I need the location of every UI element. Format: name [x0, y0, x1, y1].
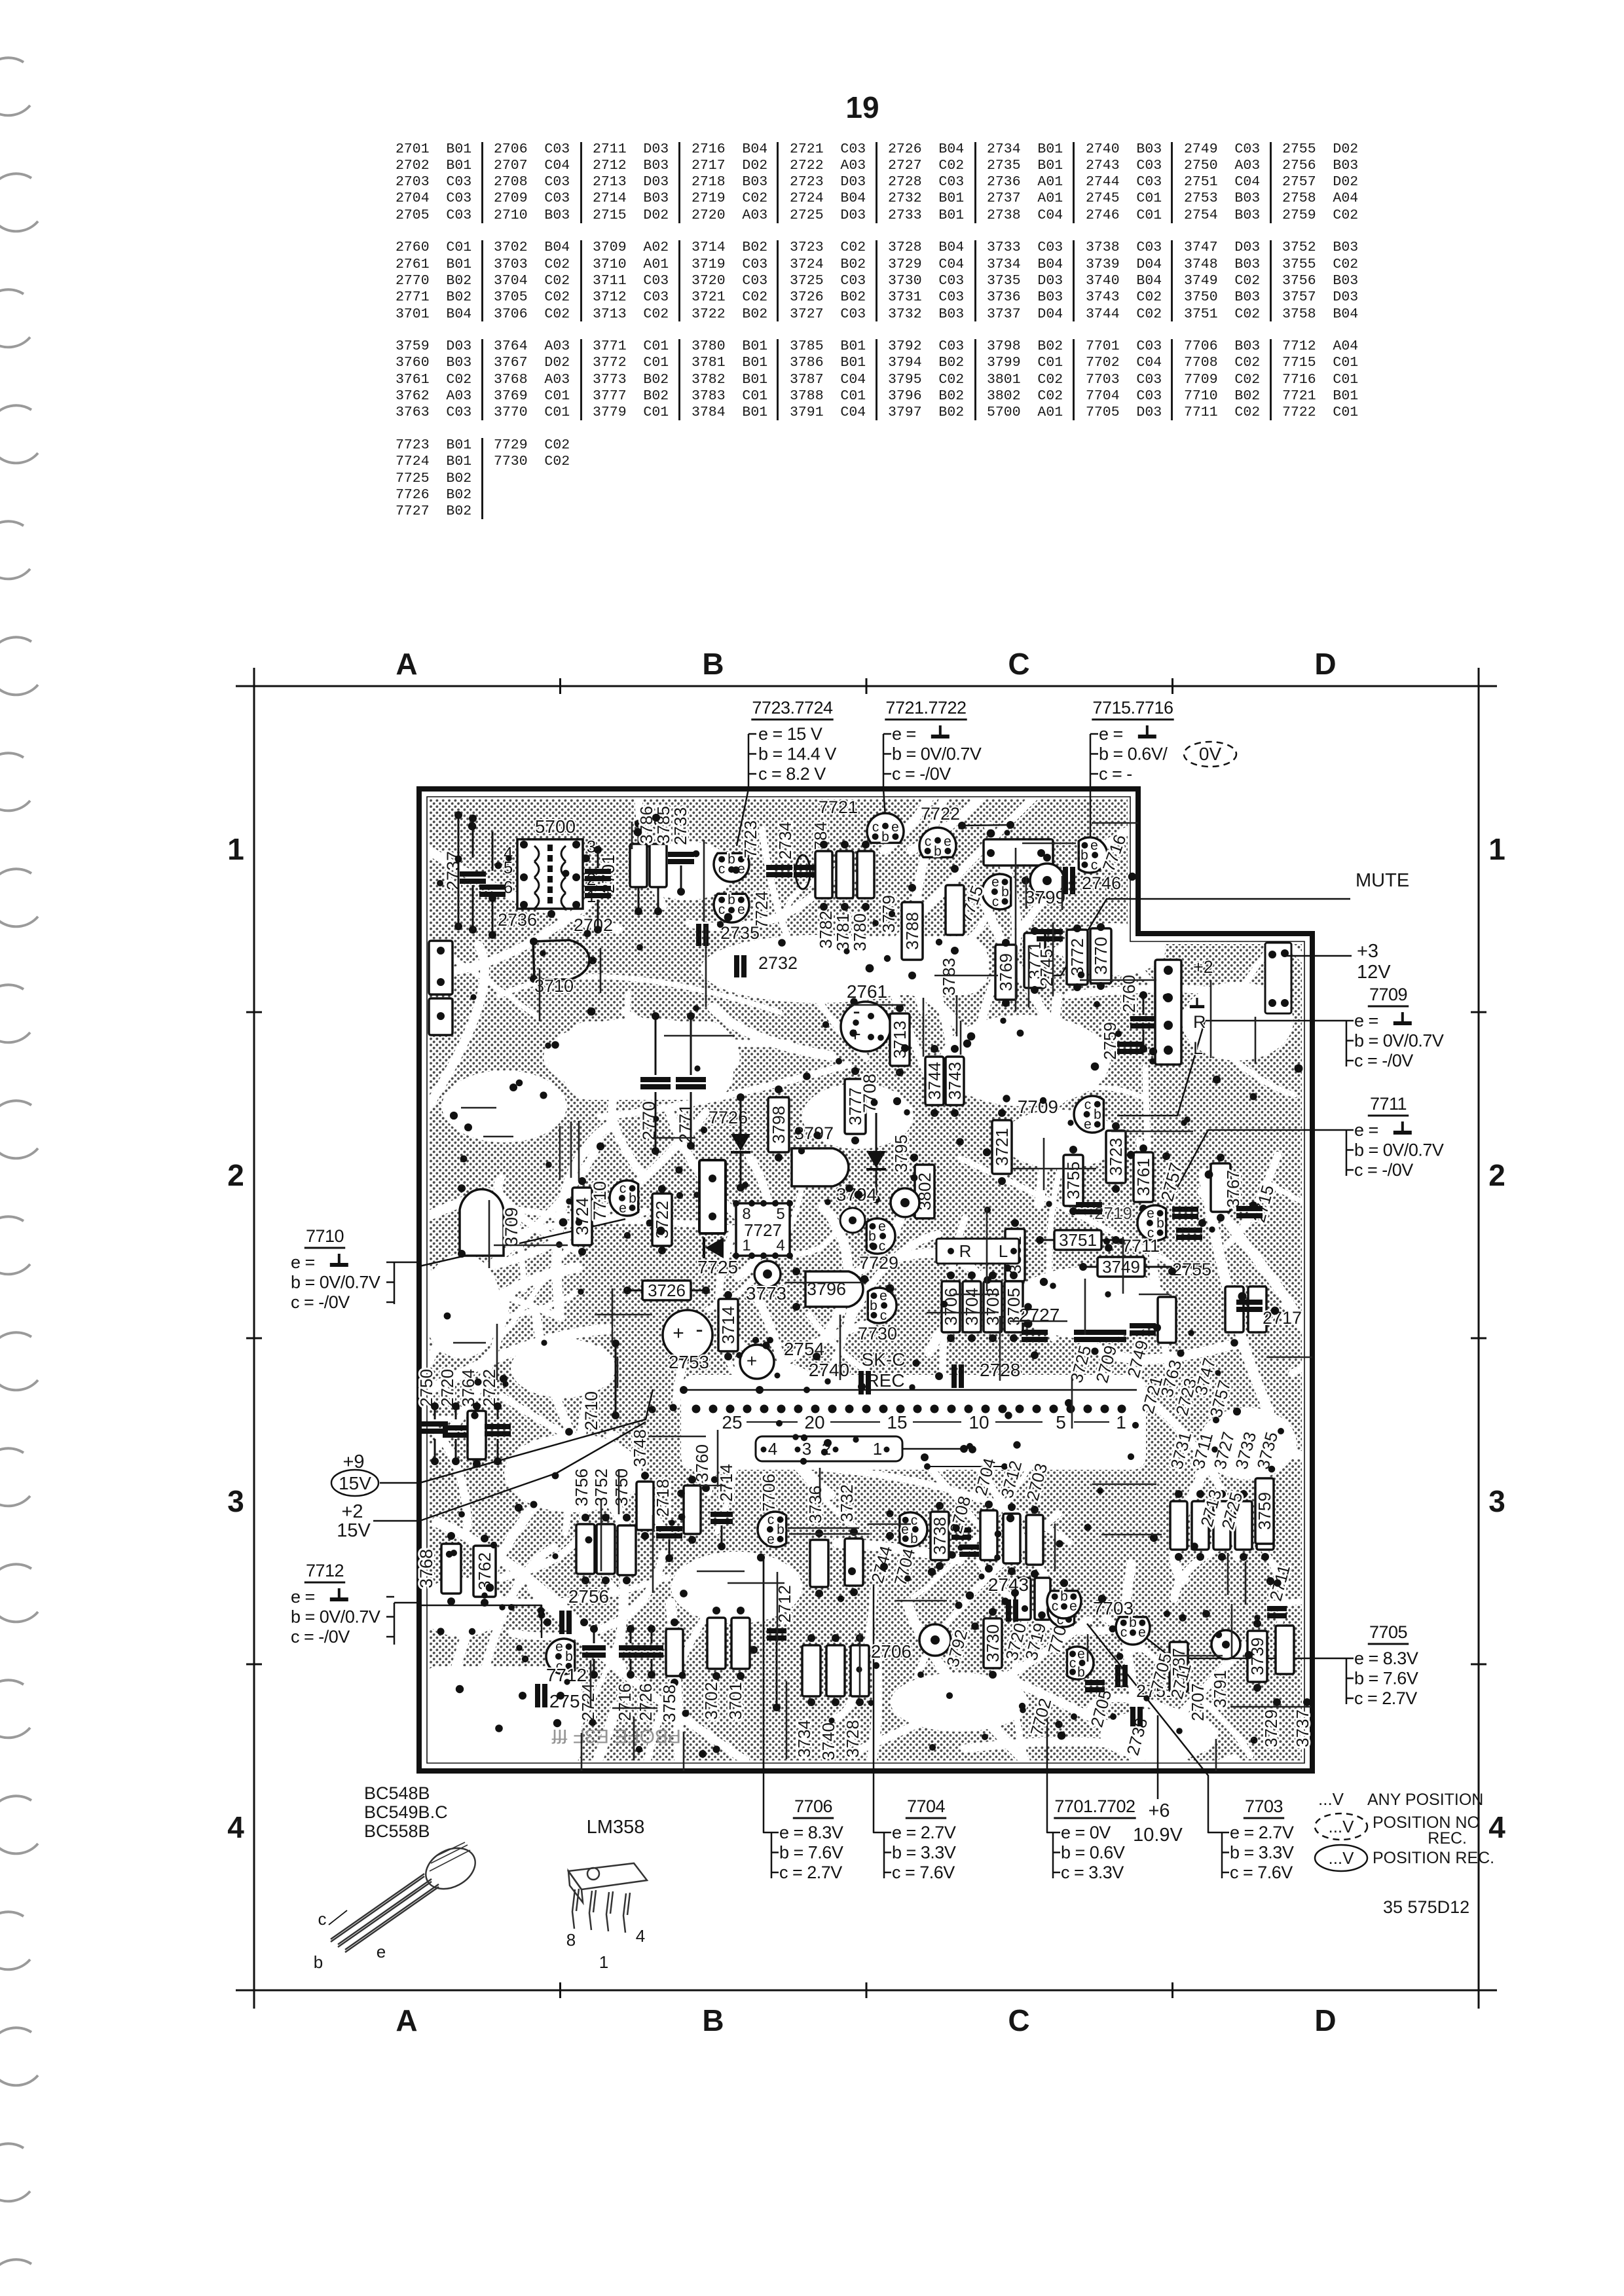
svg-text:7722: 7722	[921, 804, 960, 824]
svg-text:2740: 2740	[809, 1360, 849, 1380]
svg-text:...V: ...V	[1318, 1789, 1344, 1809]
resistor 3709 outline	[460, 1189, 504, 1256]
svg-text:b = 7.6V: b = 7.6V	[779, 1843, 843, 1863]
resistor 3767	[1211, 1163, 1230, 1212]
svg-text:B: B	[702, 2003, 724, 2037]
svg-text:3730: 3730	[983, 1624, 1003, 1662]
svg-text:2732: 2732	[758, 953, 798, 973]
svg-text:c = 8.2 V: c = 8.2 V	[758, 764, 826, 784]
bracket 7710	[394, 1262, 396, 1304]
svg-text:2755: 2755	[1172, 1260, 1211, 1279]
connector +2/gnd/R/L	[1155, 960, 1181, 1065]
svg-text:c: c	[1052, 1599, 1059, 1614]
svg-text:2746: 2746	[1082, 873, 1121, 893]
capacitor 2736	[479, 884, 506, 897]
svg-text:b = 0V/0.7V: b = 0V/0.7V	[892, 744, 982, 764]
svg-text:3: 3	[587, 837, 596, 856]
svg-text:b: b	[1129, 1615, 1137, 1630]
svg-text:12V: 12V	[1357, 962, 1391, 983]
svg-text:3701: 3701	[726, 1682, 745, 1720]
transistor 7709	[1074, 1096, 1103, 1133]
svg-text:5: 5	[1056, 1412, 1066, 1432]
svg-text:3759: 3759	[1255, 1492, 1274, 1530]
resistor 3730	[983, 1618, 1003, 1668]
bracket 7701.7702	[1052, 1832, 1054, 1878]
svg-text:c: c	[318, 1909, 327, 1929]
svg-text:2: 2	[227, 1158, 244, 1192]
leader to 7709	[1117, 1021, 1346, 1116]
pad strip	[699, 1160, 726, 1233]
electrolytic 2754	[740, 1345, 774, 1379]
svg-text:e: e	[737, 902, 745, 917]
PCB copper texture	[284, 610, 1504, 1942]
leader to 7704	[874, 1584, 884, 1832]
svg-text:c: c	[911, 1513, 918, 1528]
svg-text:2759: 2759	[1100, 1022, 1120, 1060]
oval 15V	[331, 1470, 378, 1496]
capacitor 3725	[1074, 1330, 1100, 1342]
svg-text:4: 4	[768, 1439, 777, 1459]
svg-text:c: c	[1091, 858, 1098, 873]
svg-text:e =: e =	[892, 724, 916, 744]
svg-text:25: 25	[722, 1412, 742, 1432]
svg-text:7726: 7726	[709, 1108, 748, 1127]
svg-text:c = 7.6V: c = 7.6V	[892, 1863, 955, 1882]
svg-text:2734: 2734	[775, 822, 795, 860]
svg-text:7708: 7708	[860, 1074, 879, 1113]
svg-text:10: 10	[969, 1412, 989, 1432]
transistor 7706	[758, 1512, 786, 1547]
leader to 7701/7702	[1047, 1702, 1053, 1832]
svg-text:e: e	[878, 1219, 886, 1234]
resistor 3780	[857, 851, 874, 898]
resistor	[1170, 1501, 1187, 1550]
pad rectangle	[984, 839, 1053, 866]
pad 3799	[1030, 864, 1064, 898]
capacitor 2716	[619, 1645, 642, 1658]
svg-text:7711: 7711	[1370, 1094, 1407, 1114]
svg-text:e: e	[891, 820, 899, 835]
bracket 7711	[1346, 1130, 1348, 1176]
svg-text:5700: 5700	[535, 816, 576, 837]
resistor 3726	[642, 1281, 691, 1300]
svg-text:b: b	[870, 1298, 877, 1313]
resistor 3797 outline	[792, 1148, 849, 1186]
capacitor 2745	[1037, 929, 1063, 941]
wire pin scale	[995, 1421, 1043, 1423]
svg-text:+3: +3	[1357, 941, 1378, 962]
svg-text:REC.: REC.	[1428, 1829, 1467, 1848]
bracket 7704	[883, 1832, 885, 1878]
transistor 7721	[867, 813, 904, 843]
resistor 3714	[718, 1299, 738, 1351]
voltage annotation 7723.7724	[751, 698, 836, 784]
connector pads left edge	[429, 941, 452, 994]
transistor 7701	[1067, 1647, 1094, 1679]
resistor 3740	[826, 1645, 845, 1696]
capacitor	[585, 886, 611, 898]
svg-text:b: b	[910, 1531, 918, 1546]
svg-text:7723.7724: 7723.7724	[752, 698, 833, 718]
leader to 7721	[883, 789, 885, 817]
resistor 3751	[1054, 1230, 1101, 1250]
bracket 7703	[1221, 1832, 1223, 1878]
svg-text:2: 2	[1488, 1158, 1505, 1192]
svg-text:3767: 3767	[1223, 1170, 1243, 1208]
svg-text:b = 0V/0.7V: b = 0V/0.7V	[291, 1273, 380, 1292]
capacitor 2738	[1130, 1707, 1143, 1726]
bracket 7705	[1346, 1658, 1348, 1704]
resistor 3704	[962, 1281, 982, 1332]
resistor 3703	[983, 1281, 1003, 1332]
svg-text:b = 0.6V/: b = 0.6V/	[1099, 744, 1168, 764]
svg-text:2717: 2717	[1263, 1308, 1302, 1328]
svg-text:3773: 3773	[746, 1283, 786, 1303]
svg-text:b: b	[629, 1191, 637, 1206]
svg-text:2707: 2707	[1188, 1683, 1208, 1721]
svg-text:BC549B.C: BC549B.C	[364, 1802, 448, 1822]
svg-text:3702: 3702	[701, 1682, 721, 1720]
svg-text:1: 1	[1116, 1412, 1126, 1432]
svg-text:3721: 3721	[992, 1128, 1012, 1166]
svg-text:e: e	[1084, 1117, 1092, 1132]
svg-text:b = 0V/0.7V: b = 0V/0.7V	[291, 1607, 380, 1627]
R/L pad box	[936, 1239, 1019, 1264]
svg-text:3713: 3713	[890, 1021, 910, 1059]
pad	[572, 873, 580, 881]
resistor 3702	[707, 1618, 726, 1669]
svg-text:...V: ...V	[1328, 1848, 1354, 1868]
resistor 3722	[652, 1194, 672, 1246]
capacitor 7711a	[1172, 1207, 1198, 1219]
svg-text:2702: 2702	[574, 915, 613, 935]
svg-text:3748: 3748	[630, 1429, 650, 1467]
svg-text:3770: 3770	[1091, 937, 1111, 975]
svg-text:e =: e =	[291, 1252, 315, 1272]
svg-text:e: e	[555, 1639, 563, 1654]
svg-text:3724: 3724	[572, 1197, 592, 1235]
svg-text:C: C	[1008, 647, 1029, 681]
svg-text:3764: 3764	[458, 1369, 478, 1407]
pad	[520, 841, 528, 848]
svg-text:4: 4	[636, 1926, 645, 1946]
svg-text:3: 3	[227, 1484, 244, 1518]
svg-text:3726: 3726	[648, 1281, 686, 1300]
svg-text:2733: 2733	[671, 807, 690, 845]
wire +6	[1157, 1715, 1159, 1799]
resistor 3749	[1098, 1257, 1145, 1277]
wire +3 stub	[1285, 955, 1352, 957]
svg-text:MUTE: MUTE	[1356, 870, 1409, 891]
svg-text:2736: 2736	[498, 910, 537, 930]
svg-text:b: b	[1156, 1216, 1164, 1231]
capacitor 2728	[951, 1364, 964, 1388]
svg-text:c = -/0V: c = -/0V	[1354, 1051, 1413, 1070]
wire 7722	[962, 825, 1010, 826]
svg-text:+2: +2	[1193, 957, 1213, 977]
svg-text:7703: 7703	[1245, 1796, 1283, 1816]
svg-text:7712: 7712	[306, 1561, 344, 1580]
wire pin scale	[830, 1421, 880, 1423]
pad circle	[891, 1188, 919, 1217]
resistor 3747b	[1225, 1286, 1244, 1332]
svg-text:D: D	[1314, 647, 1336, 681]
svg-text:b = 0V/0.7V: b = 0V/0.7V	[1354, 1140, 1444, 1160]
svg-text:c = -/0V: c = -/0V	[892, 764, 951, 784]
svg-text:b: b	[314, 1952, 323, 1972]
svg-text:3736: 3736	[805, 1485, 825, 1523]
svg-text:e =: e =	[291, 1587, 315, 1607]
electrolytic 2753	[663, 1310, 712, 1360]
resistor 3743	[945, 1057, 965, 1105]
capacitor 2746	[1063, 867, 1075, 894]
diode 7708	[866, 1151, 886, 1168]
resistor	[1192, 1501, 1209, 1550]
resistor	[1235, 1501, 1252, 1550]
resistor 3737r	[1276, 1626, 1294, 1674]
IC 7727	[736, 1203, 790, 1256]
electrolytic 2761	[841, 1002, 891, 1051]
svg-text:e =: e =	[1354, 1011, 1378, 1030]
svg-text:3740: 3740	[819, 1722, 838, 1760]
svg-text:3788: 3788	[902, 912, 922, 950]
svg-text:b = 14.4 V: b = 14.4 V	[758, 744, 836, 764]
svg-text:4: 4	[227, 1810, 244, 1844]
pad 3773	[754, 1261, 781, 1287]
capacitor 2756	[559, 1611, 572, 1634]
svg-text:3758: 3758	[659, 1685, 679, 1722]
transformer 5700	[517, 839, 583, 909]
svg-text:e: e	[1147, 1206, 1154, 1221]
svg-text:c = -: c = -	[1099, 764, 1132, 784]
resistor 3734	[802, 1645, 821, 1696]
capacitor 2740	[858, 1371, 871, 1394]
svg-text:1: 1	[227, 832, 244, 866]
svg-text:e = 8.3V: e = 8.3V	[779, 1823, 843, 1842]
svg-text:b: b	[728, 892, 735, 907]
resistor 3736	[810, 1540, 828, 1587]
svg-text:2714: 2714	[716, 1464, 736, 1502]
svg-text:10.9V: 10.9V	[1133, 1825, 1183, 1846]
svg-text:e = 2.7V: e = 2.7V	[892, 1823, 956, 1842]
svg-text:7706: 7706	[794, 1796, 832, 1816]
svg-text:b: b	[777, 1522, 784, 1537]
svg-text:b: b	[728, 852, 735, 867]
svg-text:e = 2.7V: e = 2.7V	[1230, 1823, 1294, 1842]
transistor 7715	[982, 874, 1011, 909]
resistor 3802	[915, 1165, 934, 1218]
svg-text:e: e	[1077, 1647, 1085, 1662]
svg-text:3760: 3760	[692, 1444, 712, 1482]
diode 7725	[705, 1237, 724, 1258]
svg-text:3791: 3791	[1210, 1670, 1230, 1708]
svg-text:3734: 3734	[794, 1720, 814, 1758]
transistor 7702	[1048, 1594, 1075, 1627]
capacitor 2760	[1130, 1016, 1156, 1029]
svg-text:LM358: LM358	[587, 1817, 645, 1838]
voltage annotation 7704	[892, 1796, 956, 1882]
svg-text:c = -/0V: c = -/0V	[1354, 1160, 1413, 1180]
svg-text:R: R	[1193, 1012, 1206, 1032]
svg-text:2756: 2756	[568, 1586, 609, 1607]
resistor 3738	[930, 1512, 950, 1560]
svg-text:7709: 7709	[1369, 985, 1407, 1004]
svg-text:b = 3.3V: b = 3.3V	[1230, 1843, 1294, 1863]
svg-text:3799: 3799	[1025, 887, 1065, 907]
resistor 3719	[1035, 1578, 1050, 1620]
resistor 3768	[441, 1544, 461, 1594]
capacitor 2732	[734, 955, 747, 977]
capacitor 7711b	[1176, 1228, 1202, 1240]
voltage annotation 7706	[779, 1796, 843, 1882]
svg-text:e =: e =	[1099, 724, 1123, 744]
svg-text:20: 20	[804, 1412, 824, 1432]
resistor 2703r	[1026, 1515, 1043, 1565]
svg-text:c: c	[880, 1308, 887, 1323]
resistor 3756	[576, 1524, 595, 1574]
svg-text:2706: 2706	[871, 1641, 912, 1662]
leader to 7703	[1087, 1624, 1222, 1832]
svg-text:c: c	[619, 1181, 627, 1196]
svg-text:e = 8.3V: e = 8.3V	[1354, 1649, 1418, 1668]
svg-text:7721.7722: 7721.7722	[885, 698, 966, 718]
resistor 3798	[768, 1097, 789, 1152]
resistor	[1158, 1297, 1176, 1343]
resistor 3770	[1090, 928, 1111, 983]
svg-text:b: b	[1080, 848, 1088, 863]
transistor 7711	[1137, 1205, 1166, 1241]
capacitor 2733	[668, 852, 694, 864]
capacitor 2726	[640, 1645, 663, 1658]
wire diagonal +9	[420, 1389, 653, 1483]
resistor 3748	[637, 1482, 654, 1530]
wire MUTE	[1052, 899, 1350, 975]
resistor 3786	[630, 844, 647, 887]
svg-text:c: c	[1120, 1625, 1128, 1640]
resistor 3783	[946, 885, 964, 935]
svg-text:3751: 3751	[1059, 1230, 1097, 1250]
resistor 3782	[815, 851, 832, 898]
svg-text:1: 1	[599, 1952, 608, 1972]
svg-text:c = 7.6V: c = 7.6V	[1230, 1863, 1293, 1882]
resistor 2704r	[980, 1510, 997, 1560]
bracket 7723.7724	[748, 734, 750, 789]
svg-text:A: A	[396, 2003, 417, 2037]
svg-text:3743: 3743	[945, 1062, 965, 1100]
resistor 3728	[851, 1645, 869, 1696]
svg-text:c: c	[879, 1239, 886, 1254]
svg-text:b = 0V/0.7V: b = 0V/0.7V	[1354, 1031, 1444, 1051]
svg-text:3737: 3737	[1293, 1709, 1312, 1747]
svg-text:7730: 7730	[858, 1324, 897, 1343]
leader 7712	[394, 1602, 420, 1604]
svg-text:SK-C: SK-C	[862, 1349, 906, 1370]
svg-text:7710: 7710	[306, 1226, 344, 1246]
resistor 3723	[1106, 1131, 1126, 1183]
leader to 7705	[1145, 1637, 1346, 1658]
capacitor 3738	[951, 1527, 971, 1540]
svg-text:3709: 3709	[502, 1207, 521, 1247]
svg-text:R: R	[959, 1241, 972, 1261]
PCB inner outline	[427, 797, 1304, 1763]
resistor 3724	[572, 1188, 592, 1245]
svg-text:2716: 2716	[615, 1683, 635, 1721]
wire pin scale	[1074, 1421, 1109, 1423]
svg-text:c: c	[718, 862, 726, 877]
leader to 7723/7724	[737, 789, 748, 846]
svg-text:3795: 3795	[891, 1135, 911, 1173]
svg-text:+6: +6	[1148, 1800, 1170, 1821]
wire +2	[373, 1520, 420, 1522]
wire connector row	[684, 1389, 1137, 1391]
wire pin scale	[747, 1421, 798, 1423]
capacitor 2724	[582, 1645, 606, 1658]
capacitor 2743	[1006, 1599, 1018, 1622]
svg-text:b: b	[868, 1229, 876, 1244]
svg-text:c: c	[767, 1512, 775, 1527]
svg-text:2720: 2720	[437, 1369, 457, 1407]
resistor 3788	[902, 902, 923, 960]
wire pin scale	[913, 1421, 961, 1423]
capacitor 2714	[710, 1512, 733, 1524]
bracket 7712	[394, 1603, 396, 1645]
connector block 1-4	[756, 1436, 902, 1461]
voltage annotation 7711	[1354, 1094, 1444, 1180]
resistor 3755	[1063, 1155, 1083, 1206]
svg-text:e = 15 V: e = 15 V	[758, 724, 822, 744]
resistor 3744	[925, 1057, 944, 1105]
svg-text:7701.7702: 7701.7702	[1054, 1796, 1135, 1816]
svg-text:2710: 2710	[581, 1391, 601, 1430]
svg-text:e: e	[1069, 1599, 1077, 1614]
svg-text:b = 3.3V: b = 3.3V	[892, 1843, 956, 1863]
svg-text:2722: 2722	[479, 1369, 499, 1407]
transistor 7716	[1079, 837, 1107, 873]
svg-text:2743: 2743	[988, 1575, 1029, 1595]
svg-text:c: c	[1084, 1097, 1092, 1112]
resistor	[1257, 1501, 1274, 1550]
resistor 3760	[684, 1485, 701, 1534]
svg-text:+2: +2	[341, 1501, 363, 1522]
svg-text:ANY POSITION: ANY POSITION	[1367, 1791, 1483, 1809]
svg-text:c = 2.7V: c = 2.7V	[779, 1863, 842, 1882]
svg-text:2753: 2753	[669, 1352, 709, 1372]
capacitor 2722	[485, 1424, 511, 1436]
svg-text:7711: 7711	[1122, 1236, 1160, 1256]
svg-text:3732: 3732	[837, 1484, 857, 1522]
resistor 3781	[836, 851, 853, 898]
resistor 3720	[1015, 1578, 1031, 1620]
svg-text:2724: 2724	[578, 1683, 598, 1721]
resistor 3761	[1134, 1152, 1153, 1202]
capacitor 2719	[1076, 1202, 1102, 1214]
svg-text:35 575D12: 35 575D12	[1383, 1897, 1469, 1917]
svg-text:3798: 3798	[769, 1106, 788, 1144]
svg-text:C: C	[1008, 2003, 1029, 2037]
pad 2706	[919, 1624, 951, 1656]
resistor 3769	[995, 945, 1016, 1000]
bracket 7715.7716	[1090, 734, 1092, 843]
svg-text:3723: 3723	[1106, 1138, 1126, 1176]
svg-text:4: 4	[1488, 1810, 1505, 1844]
resistor 3772	[1067, 930, 1088, 985]
capacitor 2735	[696, 924, 709, 946]
leader to 7711	[1171, 1130, 1346, 1199]
svg-text:3783: 3783	[939, 958, 959, 996]
svg-text:+: +	[747, 1351, 757, 1371]
PCB board outline	[419, 789, 1312, 1771]
svg-text:3780: 3780	[850, 913, 870, 951]
